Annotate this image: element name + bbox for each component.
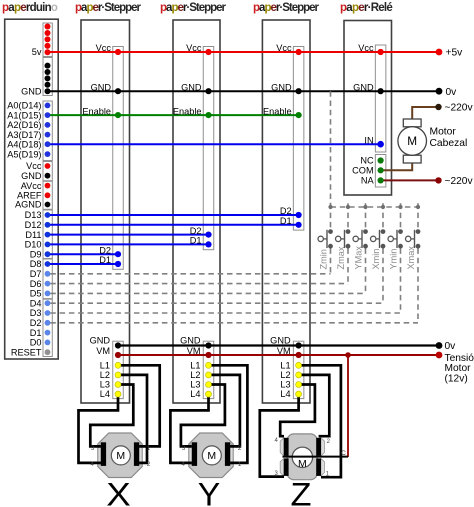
svg-text:Enable: Enable (82, 106, 111, 116)
svg-text:M: M (407, 134, 417, 148)
svg-text:paper·Relé: paper·Relé (340, 2, 392, 14)
svg-text:D2: D2 (99, 245, 111, 255)
svg-text:D3: D3 (30, 308, 42, 318)
svg-text:Xmax: Xmax (406, 246, 416, 270)
svg-text:GND: GND (180, 336, 201, 346)
svg-text:Zmax: Zmax (336, 246, 346, 269)
svg-text:L2: L2 (100, 370, 110, 380)
svg-text:paperduino: paperduino (2, 2, 58, 14)
svg-text:D1: D1 (190, 236, 202, 246)
svg-text:~220v: ~220v (445, 103, 474, 114)
svg-text:RESET: RESET (11, 347, 42, 357)
svg-text:L2: L2 (190, 370, 200, 380)
svg-text:0v: 0v (446, 87, 458, 98)
svg-text:Vcc: Vcc (26, 161, 42, 171)
svg-text:D2: D2 (190, 226, 202, 236)
svg-text:D10: D10 (25, 240, 42, 250)
svg-text:VM: VM (96, 346, 110, 356)
svg-text:D13: D13 (25, 210, 42, 220)
svg-text:L3: L3 (190, 380, 200, 390)
svg-text:Vcc: Vcc (186, 43, 202, 53)
svg-text:+5v: +5v (446, 48, 464, 59)
svg-text:YMax: YMax (354, 246, 364, 270)
svg-text:L4: L4 (280, 389, 290, 399)
svg-text:D1: D1 (99, 255, 111, 265)
svg-text:A2(D16): A2(D16) (7, 120, 41, 130)
svg-text:L1: L1 (280, 360, 290, 370)
svg-text:GND: GND (270, 336, 291, 346)
svg-text:D0: D0 (30, 338, 42, 348)
svg-text:D12: D12 (25, 220, 42, 230)
svg-text:AVcc: AVcc (21, 181, 42, 191)
svg-text:Z: Z (291, 477, 312, 507)
svg-text:COM: COM (352, 166, 373, 176)
svg-text:Vcc: Vcc (96, 43, 112, 53)
svg-text:D9: D9 (30, 249, 42, 259)
svg-text:GND: GND (91, 82, 112, 92)
svg-text:NC: NC (360, 156, 374, 166)
svg-text:A5(D19): A5(D19) (7, 149, 41, 159)
svg-text:GND: GND (353, 82, 374, 92)
svg-text:X: X (106, 477, 131, 507)
svg-text:A0(D14): A0(D14) (7, 101, 41, 111)
svg-text:L1: L1 (190, 360, 200, 370)
svg-text:A3(D17): A3(D17) (7, 130, 41, 140)
svg-text:D6: D6 (30, 279, 42, 289)
svg-text:Motor: Motor (430, 127, 457, 138)
svg-text:Vcc: Vcc (276, 43, 292, 53)
svg-text:D4: D4 (30, 298, 42, 308)
svg-text:Xmin: Xmin (371, 249, 381, 270)
svg-text:M: M (298, 458, 307, 470)
svg-text:L3: L3 (280, 380, 290, 390)
svg-text:0v: 0v (445, 341, 457, 352)
svg-text:Enable: Enable (263, 106, 292, 116)
svg-text:L4: L4 (190, 389, 200, 399)
svg-text:paper·Stepper: paper·Stepper (160, 2, 227, 14)
svg-text:D7: D7 (30, 269, 42, 279)
svg-text:L1: L1 (100, 360, 110, 370)
svg-text:D5: D5 (30, 289, 42, 299)
svg-text:Y: Y (198, 477, 221, 507)
svg-text:GND: GND (90, 336, 111, 346)
svg-text:GND: GND (181, 82, 202, 92)
svg-text:A4(D18): A4(D18) (7, 139, 41, 149)
svg-text:paper·Stepper: paper·Stepper (253, 2, 320, 14)
svg-text:A1(D15): A1(D15) (7, 110, 41, 120)
svg-text:Ymin: Ymin (389, 249, 399, 270)
svg-text:D2: D2 (30, 318, 42, 328)
svg-text:IN: IN (364, 135, 373, 145)
svg-text:D1: D1 (280, 216, 292, 226)
svg-text:Enable: Enable (173, 106, 202, 116)
svg-text:NA: NA (361, 176, 375, 186)
svg-text:5v: 5v (32, 47, 42, 57)
svg-text:GND: GND (21, 171, 42, 181)
svg-text:(12v): (12v) (445, 374, 468, 385)
svg-text:~220v: ~220v (445, 176, 474, 187)
svg-text:paper·Stepper: paper·Stepper (75, 2, 142, 14)
svg-text:M: M (116, 450, 125, 462)
svg-text:VM: VM (187, 346, 201, 356)
svg-text:D1: D1 (30, 328, 42, 338)
svg-text:GND: GND (271, 82, 292, 92)
svg-text:L4: L4 (100, 389, 110, 399)
svg-text:Zmin: Zmin (319, 249, 329, 269)
svg-text:VM: VM (277, 346, 291, 356)
svg-text:D8: D8 (30, 259, 42, 269)
svg-text:Vcc: Vcc (358, 43, 374, 53)
svg-text:M: M (207, 450, 216, 462)
svg-text:GND: GND (21, 86, 42, 96)
svg-text:AGND: AGND (15, 200, 42, 210)
svg-text:D2: D2 (280, 206, 292, 216)
svg-text:Cabezal: Cabezal (430, 138, 468, 149)
svg-text:D11: D11 (25, 230, 41, 240)
svg-text:L3: L3 (100, 380, 110, 390)
svg-text:C: C (341, 450, 346, 457)
svg-text:L2: L2 (280, 370, 290, 380)
